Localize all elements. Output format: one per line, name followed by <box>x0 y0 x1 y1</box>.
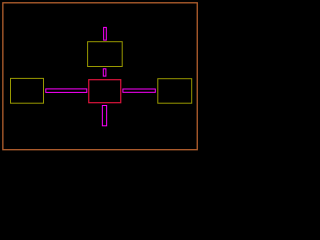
chip boundary frame <box>3 3 197 150</box>
wire (U4 to U3) <box>123 89 155 92</box>
wire (U2 to U4) <box>46 89 87 93</box>
block U4 (center) <box>89 80 121 103</box>
block U1 (top) <box>88 42 123 67</box>
wire (bottom pin of U4) <box>102 106 106 126</box>
block U2 (left) <box>11 78 44 103</box>
wire (U1 to U4) <box>103 69 106 76</box>
wire (top pin of U1) <box>104 27 107 40</box>
block U3 (right) <box>158 79 192 104</box>
